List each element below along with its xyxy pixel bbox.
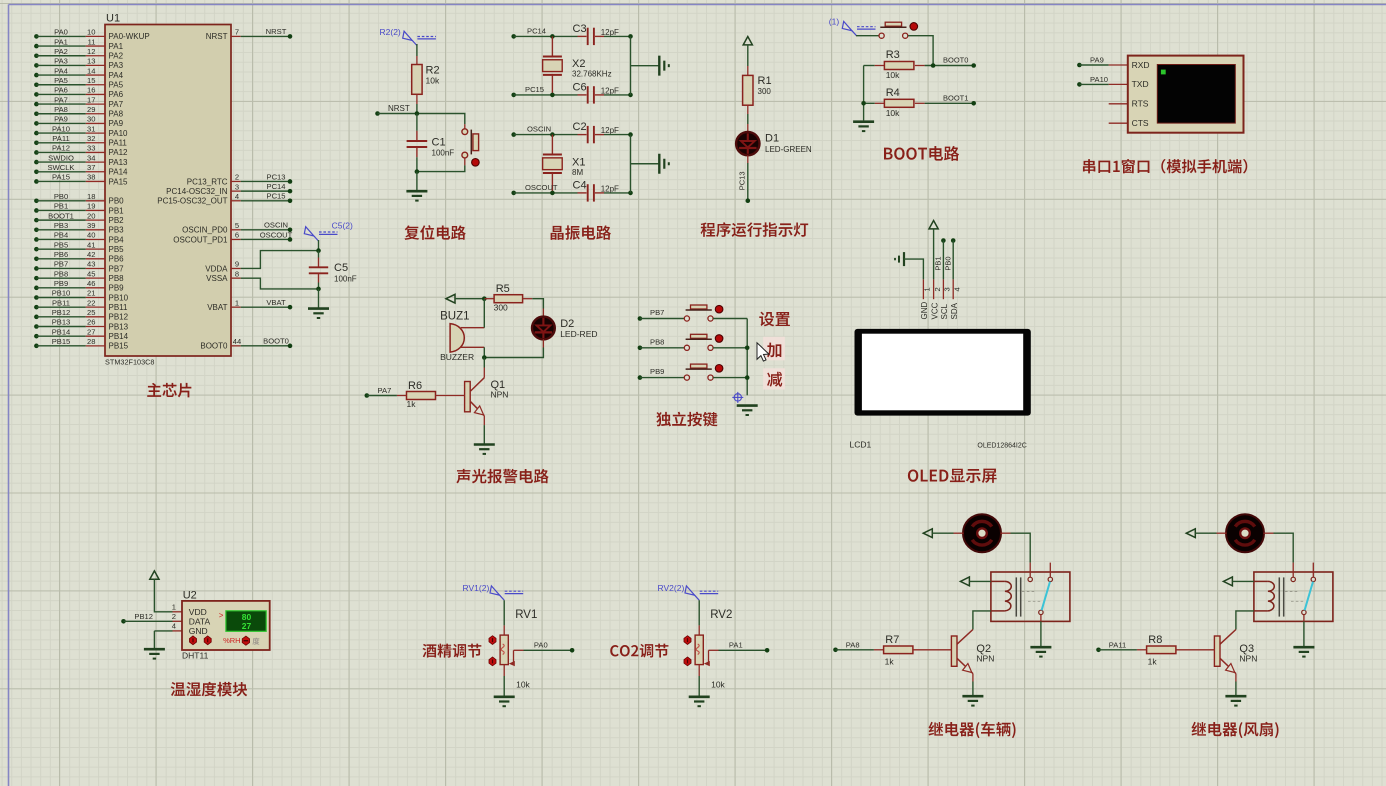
svg-text:NPN: NPN (1239, 654, 1257, 664)
svg-text:%RH: %RH (223, 636, 241, 645)
svg-text:PA9: PA9 (109, 119, 124, 128)
U2 pin 4 GND (173, 630, 183, 632)
svg-text:5: 5 (235, 221, 239, 230)
U1 left pin 21 (86, 296, 105, 298)
transistor Q3 NPN (1220, 630, 1236, 645)
U1 left pin 12 (86, 55, 105, 57)
svg-text:R3: R3 (886, 49, 900, 61)
wire net PB8 (638, 346, 643, 351)
svg-text:27: 27 (87, 327, 95, 336)
svg-text:PC15-OSC32_OUT: PC15-OSC32_OUT (157, 197, 227, 206)
svg-text:32: 32 (87, 134, 95, 143)
power arrow (motor) (1186, 529, 1195, 538)
svg-text:VBAT: VBAT (266, 298, 286, 307)
wire R3 left (864, 65, 875, 67)
ground below C5 (308, 307, 329, 310)
svg-text:PA2: PA2 (109, 52, 124, 61)
wire net PB3 to U1 left pin 39 (34, 228, 39, 233)
terminal cursor (1161, 70, 1166, 75)
svg-text:3: 3 (943, 287, 952, 291)
svg-text:OSCOUT_PD1: OSCOUT_PD1 (173, 235, 228, 244)
svg-text:VBAT: VBAT (207, 303, 227, 312)
wire power to motor (1195, 532, 1216, 534)
terminal pin RXD (1109, 64, 1128, 66)
svg-text:U1: U1 (106, 13, 120, 25)
ground RV1 (494, 695, 515, 698)
svg-text:PB12: PB12 (109, 313, 129, 322)
label 设置 (759, 312, 774, 327)
svg-text:PA7: PA7 (378, 386, 392, 395)
svg-text:RV1: RV1 (515, 609, 537, 621)
wire GND pin to ground (154, 630, 172, 632)
probe R2(2) (412, 41, 417, 46)
wire net PB4 to U1 left pin 40 (34, 237, 39, 242)
svg-text:PA0: PA0 (534, 640, 548, 649)
wire net PB7 (638, 316, 643, 321)
svg-text:PA6: PA6 (54, 86, 68, 95)
wire to ground (416, 172, 418, 191)
wire RV2 to ground (698, 665, 700, 676)
title 串口1窗口（模拟手机端） (1083, 159, 1095, 173)
svg-text:32.768KHz: 32.768KHz (572, 70, 612, 79)
LCD1 pin 1 GND (922, 279, 924, 299)
wire C5 bottom to ground (318, 289, 320, 308)
push button BOOT (879, 33, 884, 38)
U1 left pin 46 (86, 287, 105, 289)
svg-text:C3: C3 (573, 23, 587, 35)
svg-text:26: 26 (87, 318, 95, 327)
U1 right pin 8 VSSA (231, 277, 241, 279)
svg-text:VDD: VDD (189, 607, 207, 617)
wire C6 to rail (604, 94, 631, 96)
svg-text:C1: C1 (432, 137, 446, 149)
svg-text:BOOT1: BOOT1 (943, 93, 968, 102)
highlight behind 减 (763, 368, 785, 389)
wire net PA1 to U1 left pin 11 (34, 44, 39, 49)
wire probe to C5 node (318, 240, 320, 251)
svg-text:OSCIN: OSCIN (264, 221, 288, 230)
svg-text:2: 2 (235, 173, 239, 182)
wire rail to side ground (631, 65, 660, 67)
svg-text:300: 300 (758, 87, 772, 96)
wire R2 to NRST node (416, 104, 418, 114)
power arrow (coil) (960, 577, 969, 586)
OLED display LCD1 body (855, 329, 1031, 416)
svg-text:100nF: 100nF (334, 275, 357, 284)
wire net SWDIO to U1 left pin 34 (34, 160, 39, 165)
svg-text:33: 33 (87, 144, 95, 153)
U1 left pin 10 (86, 35, 105, 37)
capacitor C1 (416, 114, 418, 131)
svg-text:PB1: PB1 (934, 256, 943, 270)
svg-text:RXD: RXD (1132, 60, 1150, 70)
svg-text:27: 27 (242, 621, 252, 631)
push button PB7 (684, 316, 689, 321)
svg-text:PB14: PB14 (52, 327, 71, 336)
ground alarm (474, 443, 495, 446)
wire net PA11 to U1 left pin 32 (34, 140, 39, 145)
DHT11 green display (226, 611, 266, 632)
probe RV2(2) (695, 595, 700, 600)
probe C5(2) (314, 236, 319, 241)
wire relay NO to ground (1303, 615, 1305, 622)
LED D2 (red) (542, 309, 544, 317)
svg-text:300: 300 (494, 303, 508, 313)
svg-text:PA9: PA9 (54, 115, 68, 124)
title 温湿度模块 (171, 682, 186, 696)
wire R3-R4 vertical (863, 66, 865, 121)
svg-text:44: 44 (233, 337, 241, 346)
push button reset (rotated) (464, 124, 466, 128)
svg-text:PC14: PC14 (527, 26, 546, 35)
svg-text:PB11: PB11 (52, 298, 70, 307)
svg-text:PA5: PA5 (109, 81, 124, 90)
svg-text:CTS: CTS (1132, 118, 1149, 128)
relay contact common (1292, 563, 1294, 578)
wire probe to R2 (416, 44, 418, 56)
wire net PA9 (1077, 63, 1082, 68)
probe RV1(2) (500, 595, 505, 600)
svg-text:D1: D1 (765, 133, 779, 145)
wire power to coil (969, 580, 991, 582)
wire R4 to BOOT1 (925, 102, 974, 104)
svg-text:PA12: PA12 (109, 148, 129, 157)
svg-text:1k: 1k (1148, 657, 1158, 667)
svg-text:10k: 10k (426, 76, 440, 86)
svg-text:8M: 8M (572, 168, 583, 177)
ground reset circuit (406, 190, 427, 193)
svg-text:PB5: PB5 (54, 240, 68, 249)
wire R1 to D1 (747, 114, 749, 124)
svg-text:PB14: PB14 (109, 332, 129, 341)
wire button bus vertical (746, 319, 748, 396)
svg-text:PB15: PB15 (52, 337, 71, 346)
U1 right pin 1 VBAT (231, 306, 241, 308)
wire Q3 emitter to ground (1235, 682, 1237, 696)
svg-text:43: 43 (87, 260, 95, 269)
wire net PA2 to U1 left pin 12 (34, 53, 39, 58)
wire net PB0 to U1 left pin 18 (34, 198, 39, 203)
svg-text:DHT11: DHT11 (182, 651, 209, 661)
U1 left pin 25 (86, 316, 105, 318)
svg-text:10: 10 (87, 28, 95, 37)
svg-text:39: 39 (87, 221, 95, 230)
svg-text:PA1: PA1 (729, 640, 743, 649)
svg-text:PB3: PB3 (109, 226, 125, 235)
svg-text:PB9: PB9 (54, 279, 68, 288)
title CO2调节 (610, 645, 618, 656)
node junction PB9 bus (745, 375, 750, 380)
svg-text:PB13: PB13 (52, 318, 71, 327)
svg-text:PA11: PA11 (109, 139, 128, 148)
svg-text:12pF: 12pF (601, 126, 619, 135)
svg-text:12pF: 12pF (601, 184, 619, 193)
wire node to Q1 collector (483, 358, 485, 368)
potentiometer RV2 10k (698, 625, 700, 635)
terminal screen (1157, 65, 1235, 124)
ground Q2 emitter (962, 695, 983, 698)
svg-text:PB6: PB6 (54, 250, 68, 259)
wire power to coil (1232, 580, 1254, 582)
svg-text:VDDA: VDDA (205, 264, 228, 273)
svg-text:4: 4 (235, 192, 239, 201)
svg-text:8: 8 (235, 269, 239, 278)
svg-text:LED-GREEN: LED-GREEN (765, 145, 812, 154)
resistor R4 (875, 102, 885, 104)
wire net PB7 to U1 left pin 43 (34, 266, 39, 271)
wire motor to relay common (1001, 532, 1011, 534)
wire coil to Q3 collector (1236, 611, 1254, 630)
LCD1 pin 3 SCL (942, 279, 944, 299)
svg-text:VSSA: VSSA (206, 274, 228, 283)
svg-text:R5: R5 (496, 283, 510, 295)
svg-text:PB9: PB9 (650, 367, 664, 376)
svg-text:PB8: PB8 (109, 274, 125, 283)
svg-text:17: 17 (87, 95, 95, 104)
svg-text:41: 41 (87, 240, 95, 249)
wire net PA12 to U1 left pin 33 (34, 150, 39, 155)
resistor R5 (484, 298, 494, 300)
wire net PB5 to U1 left pin 41 (34, 247, 39, 252)
probe (1) (852, 31, 857, 36)
svg-text:C4: C4 (573, 179, 587, 191)
svg-text:38: 38 (87, 173, 95, 182)
wire net PA8 to U1 left pin 29 (34, 111, 39, 116)
svg-text:PB6: PB6 (109, 255, 125, 264)
svg-text:>: > (219, 611, 224, 620)
U1 left pin 28 (86, 345, 105, 347)
wire D1 to PC13 (747, 155, 749, 163)
wire net VBAT from U1 pin 1 (241, 306, 290, 308)
svg-text:PA10: PA10 (52, 124, 70, 133)
terminal pin RTS (1109, 103, 1128, 105)
svg-text:R6: R6 (408, 380, 422, 392)
U1 left pin 38 (86, 180, 105, 182)
svg-text:LCD1: LCD1 (850, 440, 872, 450)
wire motor to relay common (1264, 532, 1274, 534)
svg-text:PA9: PA9 (1090, 56, 1104, 65)
U1 right pin 4 PC15-OSC32_OUT (231, 200, 241, 202)
svg-text:RTS: RTS (1132, 99, 1149, 109)
svg-text:21: 21 (87, 289, 95, 298)
svg-text:DATA: DATA (189, 616, 211, 626)
node junction R4 left (861, 101, 866, 106)
node junction BOOT0 (931, 63, 936, 68)
ground (sideways) (658, 154, 660, 174)
push button PB9 (684, 375, 689, 380)
svg-text:C5: C5 (334, 262, 348, 274)
svg-text:2: 2 (172, 612, 176, 621)
push button PB8 (684, 345, 689, 350)
relay blade (cyan) (1305, 582, 1313, 611)
relay box (继电器(风扇)) (1254, 572, 1333, 621)
svg-text:PA3: PA3 (109, 61, 124, 70)
svg-text:31: 31 (87, 124, 95, 133)
svg-text:PA4: PA4 (109, 71, 124, 80)
svg-text:46: 46 (87, 279, 95, 288)
svg-text:PA15: PA15 (109, 177, 129, 186)
svg-text:PB9: PB9 (109, 284, 125, 293)
svg-text:10k: 10k (886, 108, 900, 118)
svg-text:PA4: PA4 (54, 66, 68, 75)
svg-text:PA15: PA15 (52, 173, 70, 182)
wire net PB12 (121, 619, 126, 624)
wire buzzer bottom to node (483, 347, 485, 357)
wire net NRST (375, 111, 380, 116)
svg-text:PB12: PB12 (52, 308, 71, 317)
svg-text:BOOT0: BOOT0 (263, 337, 289, 346)
U1 left pin 13 (86, 64, 105, 66)
svg-text:2: 2 (933, 287, 942, 291)
svg-text:7: 7 (235, 28, 239, 37)
svg-text:R1: R1 (758, 75, 772, 87)
terminal pin CTS (1109, 122, 1128, 124)
svg-text:1k: 1k (885, 657, 895, 667)
svg-text:42: 42 (87, 250, 95, 259)
DHT11 buttons (189, 636, 196, 645)
svg-text:10k: 10k (886, 70, 900, 80)
U1 left pin 11 (86, 45, 105, 47)
wire relay NO to ground (1040, 615, 1042, 622)
svg-text:37: 37 (87, 163, 95, 172)
wire net NRST from U1 pin 7 (241, 35, 290, 37)
svg-text:PC13_RTC: PC13_RTC (187, 177, 228, 186)
svg-text:PB13: PB13 (109, 322, 129, 331)
U1 left pin 16 (86, 93, 105, 95)
wire rail vertical (630, 36, 632, 95)
svg-text:NRST: NRST (266, 27, 287, 36)
DHT11 U2 body (182, 601, 270, 650)
U1 left pin 33 (86, 151, 105, 153)
power arrow (VCC) (743, 37, 752, 45)
svg-text:PB10: PB10 (52, 289, 71, 298)
wire VSSA to C5 bottom node (241, 278, 319, 289)
svg-text:PC13: PC13 (267, 172, 286, 181)
svg-text:PB0: PB0 (109, 197, 125, 206)
svg-text:PB8: PB8 (650, 337, 664, 346)
capacitor C6 (578, 94, 587, 96)
relay contact NC stub (1049, 563, 1051, 578)
svg-text:PB1: PB1 (54, 202, 68, 211)
wire Q2 emitter to ground (972, 682, 974, 696)
wire net PB0 (SDA) (951, 238, 956, 243)
LCD1 pin 2 VCC (933, 279, 935, 299)
svg-text:PC15: PC15 (267, 192, 286, 201)
node junction C5 bottom (316, 287, 321, 292)
U1 right pin 9 VDDA (231, 267, 241, 269)
wire C4 to rail (604, 192, 631, 194)
resistor R1 (747, 66, 749, 75)
svg-text:45: 45 (87, 269, 95, 278)
svg-text:9: 9 (235, 260, 239, 269)
ground RV2 (689, 695, 710, 698)
power arrow (DHT11) (150, 571, 159, 579)
svg-text:29: 29 (87, 105, 95, 114)
svg-text:PA0: PA0 (54, 28, 68, 37)
ground Q3 emitter (1225, 695, 1246, 698)
wire net PA7 to U1 left pin 17 (34, 102, 39, 107)
wire button to BOOT0 node (908, 36, 933, 66)
relay contact NO (1039, 610, 1043, 614)
svg-text:PB2: PB2 (109, 216, 125, 225)
wire ground to GND pin (904, 259, 923, 279)
wire probe to RV2 (698, 600, 700, 625)
wire net PB6 to U1 left pin 42 (34, 257, 39, 262)
wire node to buzzer top (483, 299, 485, 328)
svg-text:NPN: NPN (976, 654, 994, 664)
U1 left pin 39 (86, 229, 105, 231)
ground DHT11 (144, 648, 165, 651)
svg-text:30: 30 (87, 115, 95, 124)
wire power to R5 node (455, 298, 484, 300)
wire net PC14 (511, 34, 516, 39)
svg-text:PB4: PB4 (54, 231, 68, 240)
relay core (1278, 577, 1280, 616)
svg-text:NRST: NRST (388, 104, 410, 113)
wire button PB8 to bus (713, 347, 747, 349)
svg-text:PC14: PC14 (267, 182, 286, 191)
svg-text:PA1: PA1 (54, 37, 68, 46)
power arrow (alarm) (446, 294, 455, 303)
svg-text:19: 19 (87, 202, 95, 211)
svg-text:PA8: PA8 (54, 105, 68, 114)
wire power to R1 (747, 45, 749, 66)
wire coil to Q2 collector (973, 611, 991, 630)
svg-text:4: 4 (172, 621, 176, 630)
svg-text:PB7: PB7 (650, 308, 664, 317)
U1 right pin 3 PC14-OSC32_IN (231, 190, 241, 192)
wiper of RV1 (509, 661, 515, 666)
capacitor C4 (578, 192, 587, 194)
wire net PA10 to U1 left pin 31 (34, 131, 39, 136)
svg-text:PA5: PA5 (54, 76, 68, 85)
title 独立按键 (656, 412, 671, 426)
svg-text:X2: X2 (572, 58, 585, 70)
svg-text:C5(2): C5(2) (332, 221, 353, 231)
crystal X2 (551, 36, 553, 56)
svg-text:13: 13 (87, 57, 95, 66)
U1 left pin 15 (86, 84, 105, 86)
svg-text:PA1: PA1 (109, 42, 124, 51)
U1 left pin 17 (86, 103, 105, 105)
ground (sideways) (658, 56, 660, 76)
svg-text:U2: U2 (183, 590, 197, 602)
wire net PB15 to U1 left pin 28 (34, 344, 39, 349)
wire net OSCIN (511, 132, 516, 137)
wiper of RV2 (704, 661, 710, 666)
svg-text:34: 34 (87, 153, 95, 162)
U1 left pin 27 (86, 335, 105, 337)
node junction OSCOUT/crystal (550, 191, 555, 196)
ground relay contact (1030, 646, 1051, 649)
wire net PA1 (719, 649, 768, 651)
U1 right pin 2 PC13_RTC (231, 180, 241, 182)
title BOOT电路 (884, 148, 893, 160)
svg-text:PA14: PA14 (109, 168, 129, 177)
svg-text:PB8: PB8 (54, 269, 68, 278)
wire net PB1 to U1 left pin 19 (34, 208, 39, 213)
relay contact NC stub (1312, 563, 1314, 578)
svg-text:PB3: PB3 (54, 221, 68, 230)
title 酒精调节 (423, 644, 437, 658)
node junction PC14/crystal (550, 34, 555, 39)
U1 left pin 37 (86, 171, 105, 173)
capacitor C3 (578, 35, 587, 37)
wire C2 to rail (604, 134, 631, 136)
svg-text:PA8: PA8 (846, 640, 860, 649)
node junction OSCIN/crystal (550, 132, 555, 137)
wire net PA0 to U1 left pin 10 (34, 34, 39, 39)
